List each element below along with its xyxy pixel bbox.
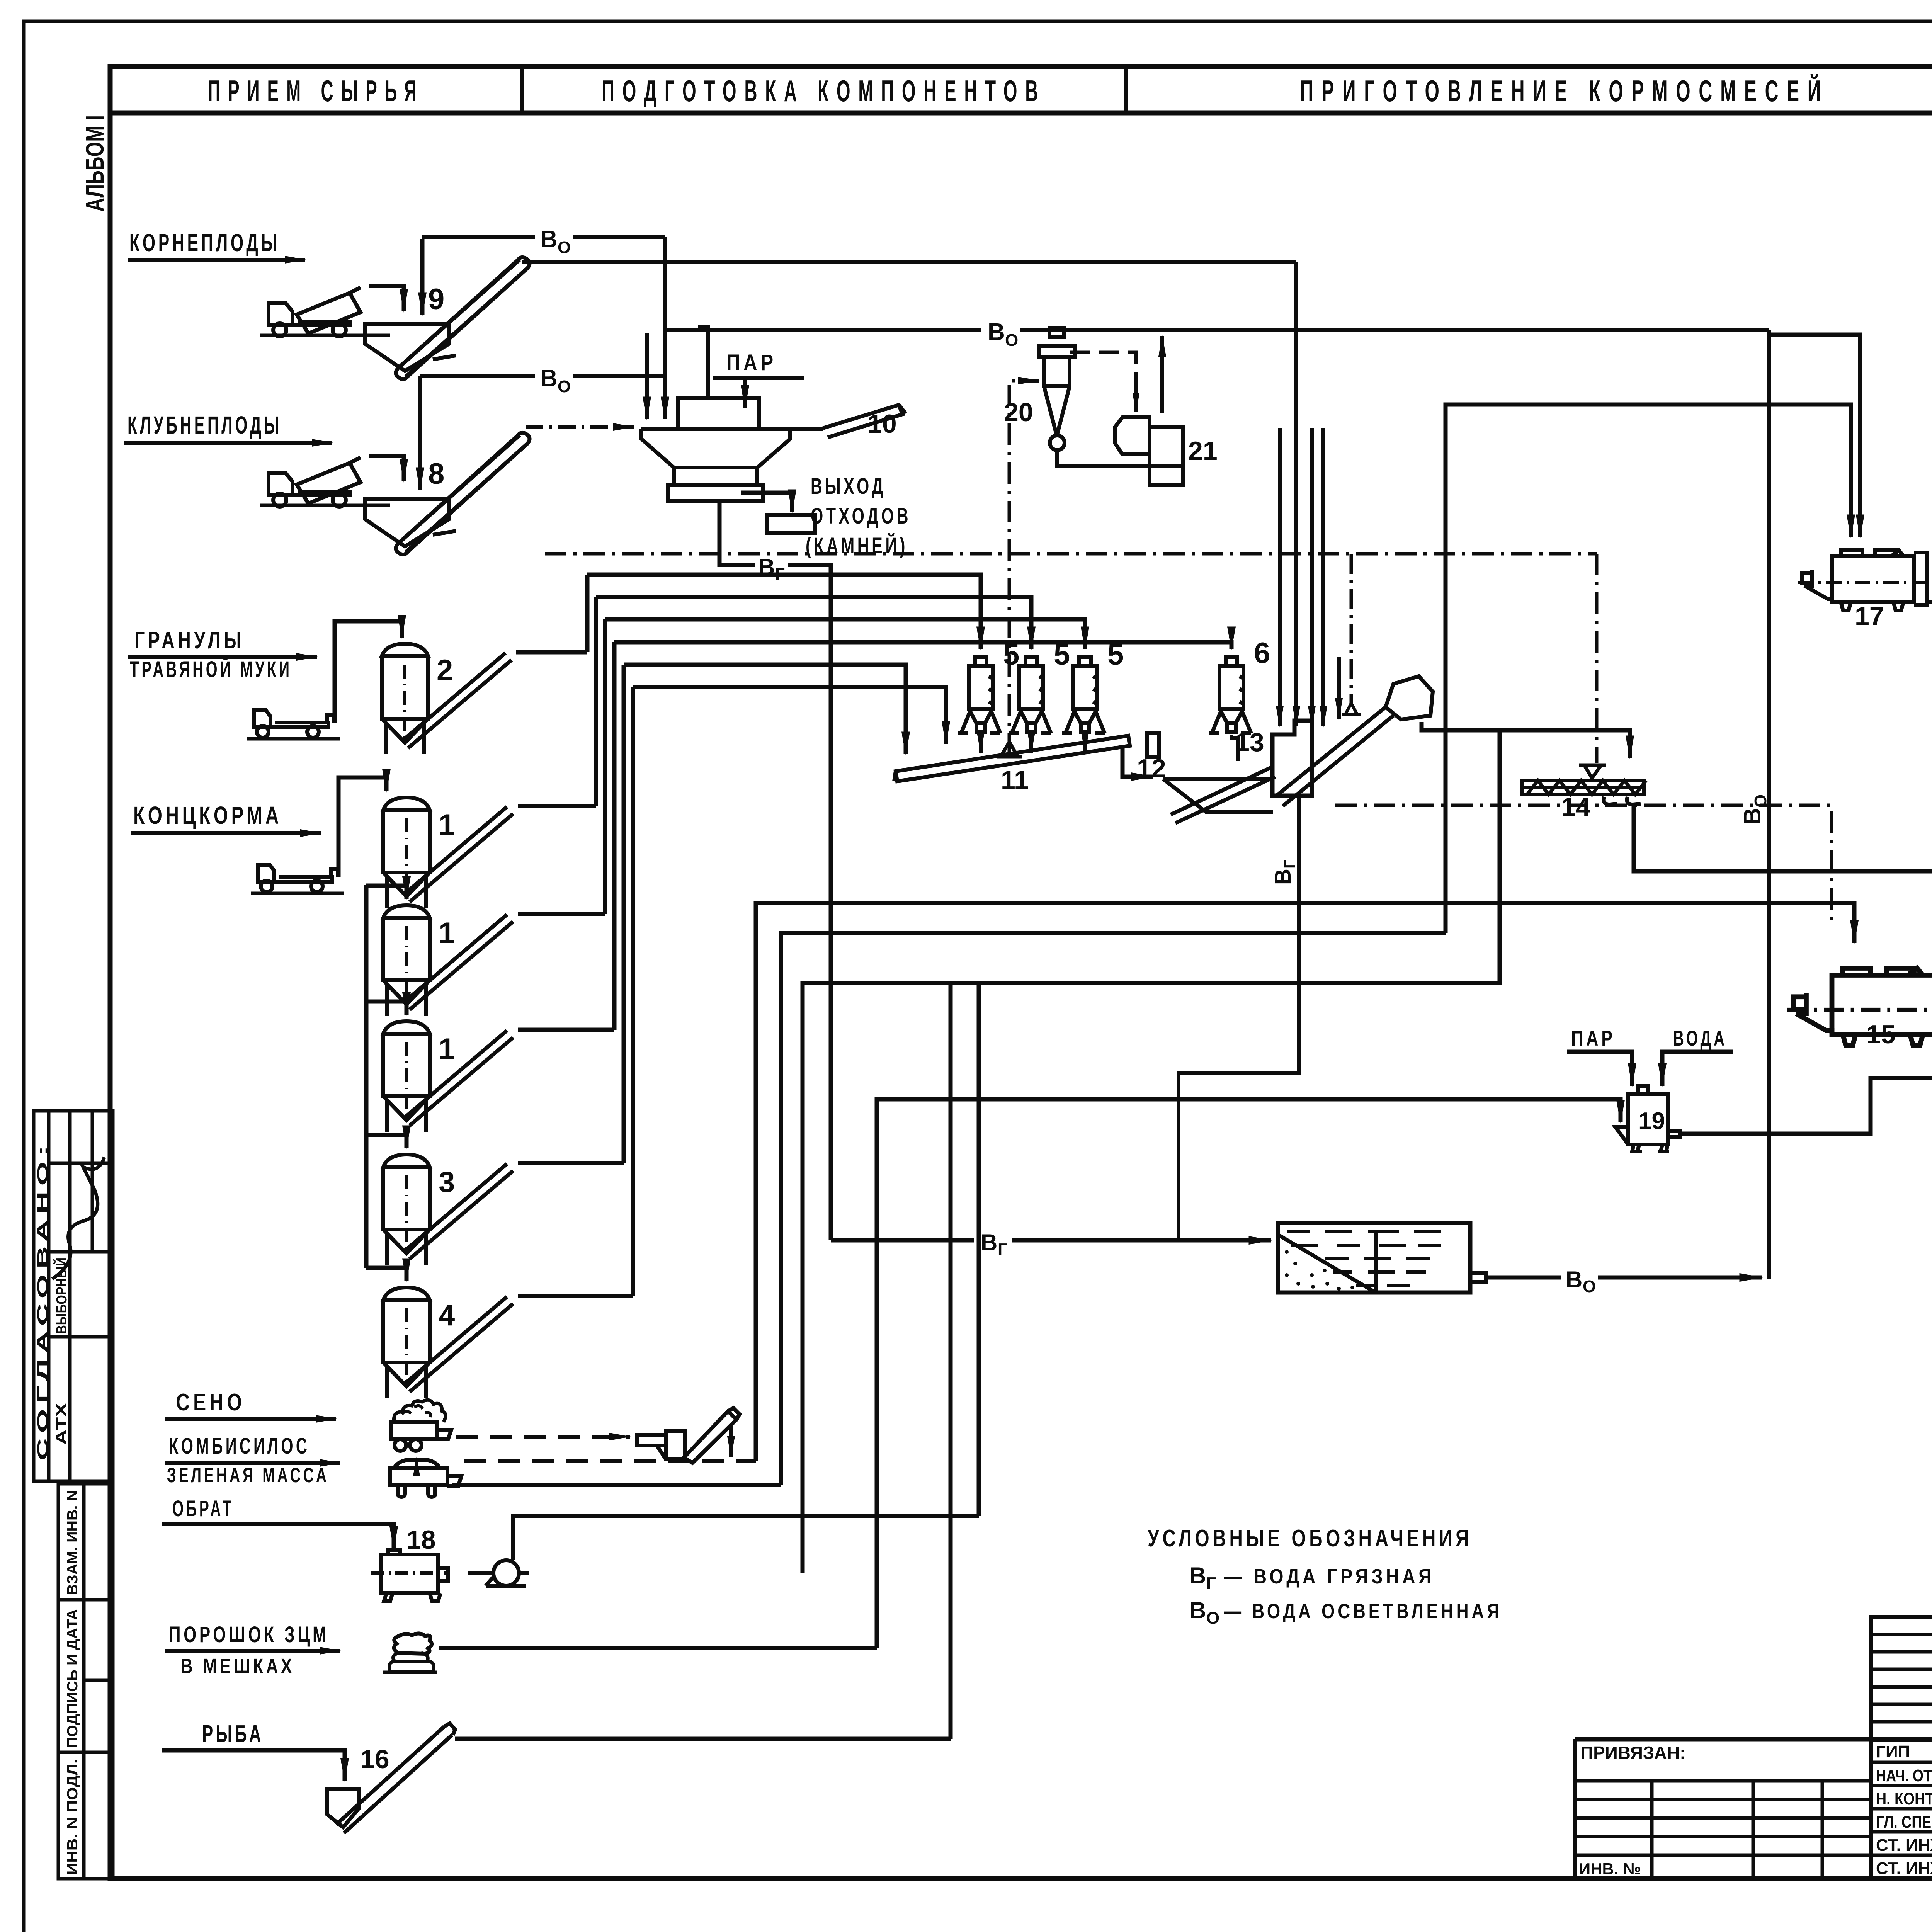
Bo line (клубнеплоды): [420, 374, 535, 378]
ground line under truck 4: [251, 892, 344, 895]
silo 1c: [383, 1021, 513, 1132]
svg-text:НАЧ. ОТД.: НАЧ. ОТД.: [1876, 1766, 1932, 1785]
svg-text:В: В: [981, 1230, 997, 1255]
svg-text:ВОДА: ВОДА: [1673, 1026, 1727, 1050]
silo 1c output line: [518, 1028, 614, 1032]
doser 5b: [1009, 657, 1051, 733]
ground line under truck 3: [247, 737, 340, 741]
svg-text:В: В: [988, 319, 1005, 345]
conveyor 11 discharge bend: [1122, 747, 1153, 777]
svg-text:— ВОДА ОСВЕТВЛЕННАЯ: — ВОДА ОСВЕТВЛЕННАЯ: [1224, 1600, 1502, 1623]
green mass solid line: [452, 1483, 781, 1487]
svg-text:19: 19: [1638, 1108, 1665, 1134]
riser silo1c line: [612, 642, 617, 1030]
Вг collector line to settling tank: [831, 1238, 974, 1243]
riser silo4 line: [631, 687, 635, 1296]
loader pipe to silo 1a: [338, 777, 386, 877]
riser silo3 line: [622, 665, 626, 1163]
svg-text:Г: Г: [775, 565, 785, 583]
arrow under Концкорма: [131, 831, 321, 835]
svg-text:ГИП: ГИП: [1876, 1742, 1910, 1761]
steamer 15: [1787, 968, 1932, 1046]
doser 5c: [1062, 657, 1105, 733]
second Bo arrow into washer: [645, 333, 649, 419]
svg-text:5: 5: [1054, 638, 1070, 671]
svg-text:18: 18: [406, 1525, 436, 1554]
svg-text:В: В: [1739, 808, 1766, 825]
svg-text:2: 2: [437, 654, 453, 687]
svg-text:ОБРАТ: ОБРАТ: [172, 1496, 234, 1521]
svg-text:ВЫБОРНЫЙ: ВЫБОРНЫЙ: [53, 1257, 70, 1334]
svg-text:В: В: [540, 226, 558, 253]
dump truck (корнеплоды): [269, 287, 361, 337]
svg-text:О: О: [558, 238, 571, 257]
svg-text:В: В: [540, 365, 558, 392]
screw 14 output to elevator of 29: [1634, 253, 1932, 871]
svg-text:ОТХОДОВ: ОТХОДОВ: [811, 503, 911, 529]
svg-text:5: 5: [1107, 638, 1124, 671]
steam line into washer: [713, 376, 804, 380]
svg-text:ПАР: ПАР: [726, 350, 777, 375]
settling tank: [1278, 1223, 1486, 1293]
svg-text:11: 11: [1001, 765, 1029, 795]
svg-text:Г: Г: [1206, 1574, 1216, 1593]
svg-text:13: 13: [1235, 728, 1264, 757]
svg-text:ПАР: ПАР: [1571, 1026, 1616, 1050]
bus L5 to conveyor 11 left: [624, 665, 906, 754]
svg-text:ПРИВЯЗАН:: ПРИВЯЗАН:: [1580, 1743, 1686, 1763]
left margin stamp: согласовано table: [34, 1111, 113, 1481]
hay crusher with discharge elevator: [637, 1408, 740, 1463]
svg-text:СТ. ИНЖ.: СТ. ИНЖ.: [1876, 1859, 1932, 1878]
svg-text:5: 5: [1003, 638, 1019, 671]
mixer 13 drain riser: [1179, 797, 1299, 1240]
settled sludge dots: [1285, 1250, 1354, 1291]
svg-text:АЛЬБОМ I: АЛЬБОМ I: [80, 115, 109, 212]
svg-text:1: 1: [439, 917, 455, 949]
feed conveyor into mixer 13: [1171, 767, 1275, 823]
gate 12: [1147, 733, 1159, 757]
svg-text:ПОРОШОК ЗЦМ: ПОРОШОК ЗЦМ: [169, 1622, 329, 1647]
stone box: [767, 515, 815, 533]
mixer 13 body: [1272, 721, 1312, 796]
conveyor 11: [894, 736, 1130, 781]
svg-text:КОМБИСИЛОС: КОМБИСИЛОС: [169, 1434, 310, 1459]
left margin stamp: инвентарные графы: [58, 1484, 113, 1879]
silo 1a: [383, 798, 513, 908]
svg-text:УСЛОВНЫЕ ОБОЗНАЧЕНИЯ: УСЛОВНЫЕ ОБОЗНАЧЕНИЯ: [1148, 1525, 1472, 1552]
unloader 21: [1115, 417, 1183, 485]
svg-text:КОРНЕПЛОДЫ: КОРНЕПЛОДЫ: [129, 229, 280, 257]
svg-text:СЕНО: СЕНО: [176, 1389, 245, 1416]
dash drop to screw feeder: [1595, 554, 1599, 763]
flatbed truck (концкорма): [258, 865, 338, 892]
chute line truck to hopper 9: [369, 286, 404, 311]
steamer 17: [1798, 550, 1932, 611]
silo 4: [383, 1287, 513, 1398]
svg-text:ЗЕЛЕНАЯ МАССА: ЗЕЛЕНАЯ МАССА: [167, 1464, 329, 1487]
flatbed truck (гранулы): [254, 710, 334, 738]
hay cart with load: [391, 1400, 451, 1451]
cyclone bottom return: [1057, 429, 1183, 466]
aspiration dash line to steamer block: [1335, 805, 1832, 927]
svg-text:ПОДГОТОВКА КОМПОНЕНТОВ: ПОДГОТОВКА КОМПОНЕНТОВ: [602, 74, 1046, 108]
arrow under Гранулы: [128, 655, 317, 659]
receiving hopper 8 with conveyor: [365, 433, 530, 554]
svg-text:ИНВ. N ПОДЛ.: ИНВ. N ПОДЛ.: [65, 1759, 81, 1875]
svg-text:4: 4: [439, 1299, 455, 1332]
washer dirty water drop: [719, 501, 755, 565]
svg-text:В: В: [1189, 1597, 1206, 1623]
обрат line into pasteurizer 18: [162, 1524, 394, 1549]
arrow under Порошок: [165, 1649, 340, 1653]
silage cart: [390, 1458, 461, 1497]
bus B1 into steamer 15: [756, 903, 1854, 1461]
svg-text:1: 1: [439, 1032, 455, 1065]
arrow under Сено: [165, 1417, 336, 1421]
pump riser line: [513, 1516, 979, 1560]
conveyor 9 output line: [522, 260, 1296, 264]
feed line from mixer zone to screw conveyor 14: [1422, 722, 1630, 758]
svg-text:О: О: [1583, 1277, 1596, 1296]
signature squiggle in согласовано table: [52, 1157, 104, 1279]
svg-text:6: 6: [1254, 637, 1270, 670]
обрат riser into B3: [977, 983, 981, 1516]
pasteurizer 18: [371, 1550, 448, 1601]
silo 4 output line: [518, 1294, 633, 1298]
svg-text:О: О: [558, 377, 571, 396]
header column separators: [520, 66, 524, 113]
svg-text:17: 17: [1855, 602, 1884, 631]
riser silo1a line: [594, 597, 598, 806]
arrow under Комбисилос: [165, 1461, 340, 1465]
svg-text:ГЛ. СПЕЦ.: ГЛ. СПЕЦ.: [1876, 1813, 1932, 1832]
silo 3: [383, 1155, 513, 1265]
svg-text:СТ. ИНЖ.: СТ. ИНЖ.: [1876, 1836, 1932, 1855]
cooker water line: [1662, 1052, 1733, 1086]
svg-text:8: 8: [428, 457, 444, 490]
cyclone 20: [1039, 328, 1075, 450]
svg-text:Н. КОНТР.: Н. КОНТР.: [1876, 1789, 1932, 1808]
svg-text:14: 14: [1561, 793, 1590, 822]
fish receiving conveyor 16: [327, 1723, 455, 1833]
steamer 17 output riser to conveyor 29: [1927, 230, 1932, 602]
title block: main signatures table: [1871, 1739, 1932, 1879]
doser 5a: [958, 657, 1000, 733]
title block: upper revision grid: [1871, 1617, 1932, 1739]
water dashes inside tank: [1287, 1232, 1441, 1285]
screw conveyor 14: [1522, 765, 1646, 804]
svg-text:КОНЦКОРМА: КОНЦКОРМА: [133, 801, 282, 829]
cyclone outlet dash to unloader: [1070, 352, 1136, 412]
порошок collector line: [439, 1646, 877, 1650]
washer aspiration dash line: [545, 552, 1597, 556]
ground line under truck: [260, 334, 390, 337]
bus L3 to doser 5c: [605, 619, 1085, 649]
receiving hopper 9 with conveyor: [365, 257, 530, 379]
riser silo2 line: [585, 575, 590, 652]
water arrow into hopper 8: [418, 376, 422, 490]
svg-text:ВЫХОД: ВЫХОД: [811, 474, 886, 499]
bus L2 to doser 5b: [596, 597, 1031, 649]
svg-text:ТРАВЯНОЙ МУКИ: ТРАВЯНОЙ МУКИ: [130, 657, 292, 682]
svg-text:ГРАНУЛЫ: ГРАНУЛЫ: [134, 627, 245, 654]
svg-text:ПОДПИСЬ И ДАТА: ПОДПИСЬ И ДАТА: [65, 1609, 81, 1748]
svg-text:12: 12: [1137, 754, 1166, 783]
svg-text:21: 21: [1188, 436, 1218, 466]
doser 6: [1209, 657, 1251, 733]
рыба riser into B3: [949, 983, 953, 1739]
silo 2 output line into collector: [516, 650, 587, 655]
silo 3 output line: [518, 1161, 624, 1165]
fish conveyor output line: [455, 1737, 951, 1741]
svg-text:ПРИГОТОВЛЕНИЕ КОРМОСМЕСЕЙ: ПРИГОТОВЛЕНИЕ КОРМОСМЕСЕЙ: [1300, 74, 1829, 108]
main Bo distribution line: [665, 328, 981, 332]
svg-text:Г: Г: [1281, 859, 1299, 869]
svg-text:Г: Г: [998, 1240, 1007, 1259]
Bo line (корнеплоды): [422, 235, 535, 239]
Bo main riser: [1767, 330, 1771, 1279]
svg-text:СОГЛАСОВАНО:: СОГЛАСОВАНО:: [35, 1140, 51, 1461]
loader pipe to silo 2: [335, 621, 402, 723]
cooker steam line: [1567, 1052, 1632, 1086]
svg-text:В: В: [1270, 869, 1296, 885]
washer-stone catcher 10: [641, 327, 906, 501]
svg-text:ВЗАМ. ИНВ. N: ВЗАМ. ИНВ. N: [65, 1490, 81, 1595]
arrow under Клубнеплоды: [124, 441, 332, 445]
Вг drain riser down: [788, 565, 831, 1240]
feed arrows onto mixer feed belt: [1337, 657, 1341, 719]
album I vertical label: [80, 115, 109, 212]
bus B2 riser to steamer 17 feed: [781, 933, 1446, 1485]
cooker 19 output to milk tank: [1680, 1078, 1932, 1134]
bus L4 to doser 6: [614, 642, 1231, 649]
svg-text:РЫБА: РЫБА: [202, 1721, 264, 1747]
svg-text:1: 1: [439, 808, 455, 841]
svg-text:9: 9: [428, 283, 444, 316]
bus B3: [803, 730, 1500, 1573]
bags of milk replacer: [383, 1633, 437, 1672]
pump after pasteurizer: [468, 1560, 529, 1586]
chute line truck to hopper 8: [369, 456, 404, 481]
arrow under Корнеплоды: [128, 258, 305, 262]
silo interconnect chute chain: [366, 885, 406, 1281]
title block: привязан box: [1575, 1739, 1871, 1879]
cooker 19: [1615, 1086, 1680, 1151]
water arrow into hopper 9: [420, 239, 425, 315]
clarified water return Bo: [1486, 1276, 1561, 1280]
рыба line into conveyor 16 hopper: [162, 1750, 345, 1781]
svg-text:3: 3: [439, 1166, 455, 1199]
svg-text:В: В: [1566, 1267, 1582, 1293]
stone discharge bent arrow: [741, 493, 792, 512]
svg-text:О: О: [1206, 1609, 1219, 1628]
hay feed dashed line to crusher: [456, 1435, 630, 1439]
silage dashed collector line: [464, 1459, 756, 1463]
svg-text:В: В: [1189, 1563, 1206, 1588]
svg-text:О: О: [1005, 331, 1018, 350]
svg-text:В: В: [758, 554, 775, 580]
dump truck (клубнеплоды): [269, 457, 361, 507]
svg-text:ПРИЕМ СЫРЬЯ: ПРИЕМ СЫРЬЯ: [208, 74, 424, 108]
svg-text:В МЕШКАХ: В МЕШКАХ: [181, 1655, 295, 1678]
Bo riser joining both Bo lines: [663, 237, 667, 419]
doser discharge arrows: [979, 735, 983, 753]
ground line under truck 2: [260, 504, 390, 507]
silo 1b output line: [518, 912, 605, 916]
svg-text:10: 10: [867, 409, 897, 439]
silo 1a output line: [518, 804, 596, 808]
svg-text:ИНВ. №: ИНВ. №: [1579, 1860, 1641, 1878]
svg-text:20: 20: [1004, 398, 1033, 427]
mixer 13 top feed arrows: [1278, 428, 1282, 726]
riser silo1b line: [603, 619, 607, 914]
mixer 13 discharge elevator: [1275, 676, 1433, 806]
weighing bin under dosers: [1163, 779, 1273, 812]
svg-text:КЛУБНЕПЛОДЫ: КЛУБНЕПЛОДЫ: [128, 411, 282, 439]
feeds into steamer 17: [1446, 405, 1851, 933]
exhaust arrow from unloader: [1160, 336, 1164, 413]
silo 1b: [383, 905, 513, 1016]
svg-text:АТХ: АТХ: [53, 1403, 70, 1445]
bus L1 to doser 5a: [587, 575, 981, 649]
rotated Вг label on mixer drain: [1270, 859, 1299, 885]
rotated Bo label on riser: [1739, 794, 1770, 825]
bus B4 into cooker 19: [877, 1099, 1621, 1648]
support under conveyor 11: [997, 742, 1022, 757]
svg-text:— ВОДА ГРЯЗНАЯ: — ВОДА ГРЯЗНАЯ: [1224, 1565, 1435, 1588]
silo 2: [382, 644, 512, 754]
conveyor 8 output duct to washer: [526, 425, 634, 429]
svg-text:15: 15: [1866, 1020, 1896, 1049]
cyclone aspiration riser: [1009, 381, 1032, 754]
bus L6 to conveyor 11: [633, 687, 946, 744]
svg-text:16: 16: [360, 1745, 389, 1774]
